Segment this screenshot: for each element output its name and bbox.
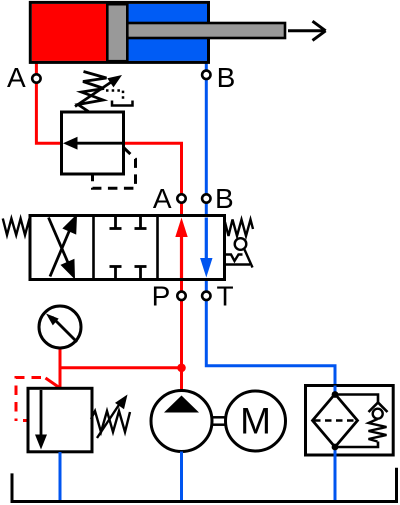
wire: red from counterbalance valve outlet right then down to valve port A [124, 143, 182, 215]
directional valve V2 body [30, 216, 225, 280]
wire: red branch to gauge and relief valve [60, 366, 182, 369]
svg-text:A: A [7, 62, 26, 93]
cylinder C1 piston [107, 4, 127, 61]
svg-text:M: M [240, 400, 271, 441]
filter F1 enclosure box [306, 386, 394, 456]
V3 adjustment arrow [97, 404, 120, 438]
relief valve V3 body [28, 388, 92, 452]
wire: blue from cylinder port B down to valve port B [205, 63, 208, 216]
V3 internal arrow (down) [40, 390, 43, 436]
wire: red from valve P down to pump (through junction) [180, 281, 183, 392]
V3 adjustable spring [91, 411, 130, 432]
wire: blue pump suction to tank [180, 452, 183, 502]
svg-text:T: T [216, 281, 233, 312]
filter diamond [313, 394, 358, 447]
junction (red) [177, 364, 186, 373]
port circle A (valve) [177, 194, 185, 202]
cylinder C1 red chamber fill [32, 4, 108, 61]
wire: red from cylinder port A down and right to counterbalance valve inlet [36, 63, 62, 144]
cylinder C1 piston rod [127, 23, 285, 38]
wire: blue from relief valve to tank [59, 452, 62, 501]
svg-text:A: A [153, 183, 172, 214]
port circle B (cylinder) [202, 71, 210, 79]
V2 right position blue flow arrow B to T [205, 218, 208, 262]
V2 right position red flow arrow P to A [180, 234, 183, 278]
motor M1 [226, 391, 286, 451]
V1 internal flow arrow (left) [75, 142, 124, 145]
port circle T [202, 292, 210, 300]
V1 pilot line (dashed) from outlet to bottom [93, 148, 136, 189]
port circle B (valve) [202, 194, 210, 202]
V2 centre position blocked ports (T symbols) [110, 217, 147, 279]
V2 cell divider 2 [156, 216, 159, 279]
pressure gauge G1 [39, 306, 81, 348]
V1 setting bracket symbol [112, 101, 133, 106]
svg-text:P: P [152, 281, 171, 312]
wire: blue through filter (hidden inside diamond) [334, 386, 337, 395]
V2 left position crossed arrows [49, 218, 76, 277]
motion arrow right of rod [288, 21, 326, 40]
shaft pump-motor [212, 416, 226, 419]
V2 left return spring [3, 219, 30, 236]
V2 detent symbol [226, 238, 253, 267]
svg-text:B: B [217, 62, 236, 93]
counterbalance valve V1 body [62, 112, 124, 174]
bypass check valve branch [335, 395, 378, 404]
V1 remote setting dotted line [106, 91, 123, 103]
relief valve V3 red dashed pilot line [46, 378, 59, 387]
tank T1 [12, 468, 397, 502]
cylinder C1 body outline [30, 2, 208, 62]
wire: blue from valve T down, right, into filter [206, 281, 335, 394]
V1 adjustment arrow [75, 82, 112, 107]
pump P1 [151, 391, 212, 452]
cylinder C1 blue chamber fill [107, 4, 207, 61]
V1 spring (adjustable) above body [78, 72, 107, 112]
port circle P [177, 292, 185, 300]
svg-text:B: B [215, 183, 234, 214]
port circle A (cylinder) [32, 74, 40, 82]
junction dots on filter line [332, 391, 339, 398]
V2 cell divider 1 [92, 216, 95, 279]
V2 right return spring [225, 220, 253, 237]
